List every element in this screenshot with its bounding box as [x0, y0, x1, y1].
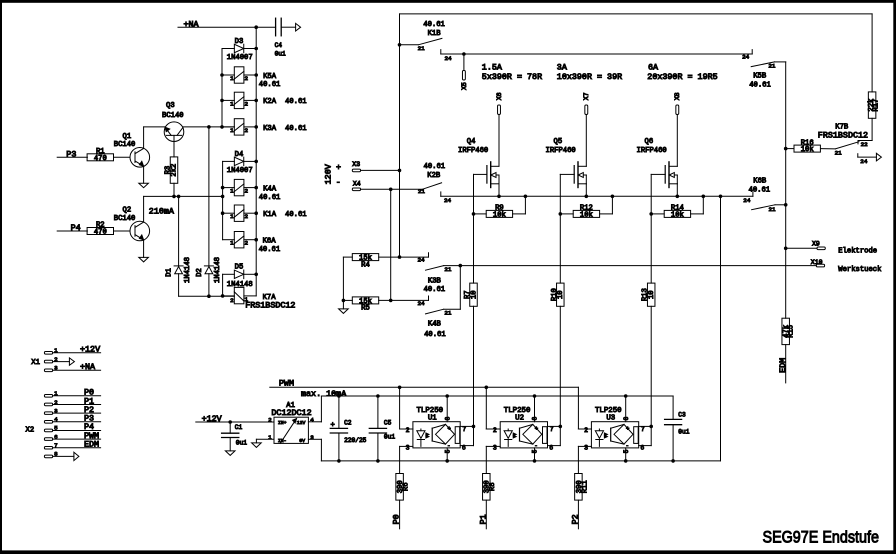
- svg-text:1: 1: [230, 75, 234, 82]
- net EDM label: [778, 358, 788, 373]
- svg-text:U1: U1: [428, 414, 437, 422]
- svg-text:+: +: [626, 425, 629, 432]
- net +NA label: [184, 20, 200, 30]
- diode D2 1N4148: [196, 127, 222, 296]
- svg-text:40.61: 40.61: [285, 125, 307, 133]
- diode D5 1N4148: [223, 263, 258, 288]
- svg-text:EDM: EDM: [84, 440, 99, 450]
- svg-text:1: 1: [230, 240, 234, 247]
- svg-text:Q5: Q5: [554, 138, 563, 146]
- svg-text:R5: R5: [361, 305, 370, 313]
- svg-text:R3: R3: [165, 166, 173, 175]
- svg-text:120V: 120V: [324, 164, 334, 184]
- svg-text:K6B: K6B: [753, 177, 767, 185]
- wire MOSFET source rail: [441, 195, 753, 199]
- wire rail C (D5 anode to K7A): [221, 274, 225, 297]
- svg-text:Q4: Q4: [467, 138, 476, 146]
- svg-text:+: +: [448, 425, 451, 432]
- switch K7B FRS1BSDC12: [786, 124, 877, 166]
- resistor R15 47k: [782, 318, 796, 383]
- svg-text:X7: X7: [583, 92, 590, 100]
- svg-text:3: 3: [406, 444, 410, 451]
- svg-text:1N4148: 1N4148: [184, 257, 192, 283]
- svg-text:8: 8: [444, 416, 451, 420]
- svg-text:40.61: 40.61: [424, 286, 446, 294]
- wire opto ground rail: [321, 459, 720, 463]
- svg-text:C1: C1: [235, 424, 243, 431]
- svg-text:Elektrode: Elektrode: [838, 247, 877, 255]
- X2 pin 8 arrow: [44, 451, 79, 461]
- capacitor C4: [275, 18, 296, 57]
- relay coil K6A: [223, 232, 281, 255]
- svg-text:12V: 12V: [297, 420, 306, 426]
- svg-text:5: 5: [623, 449, 630, 453]
- svg-text:2: 2: [245, 75, 249, 82]
- svg-text:Q1: Q1: [123, 133, 132, 141]
- terminal X6: [496, 92, 503, 114]
- resistor R6 390: [396, 474, 411, 529]
- svg-text:1: 1: [230, 213, 234, 220]
- ground at Q1 emitter: [139, 183, 149, 188]
- svg-text:BC140: BC140: [114, 141, 136, 149]
- svg-text:DC12DC12: DC12DC12: [271, 408, 311, 418]
- svg-text:+: +: [535, 425, 538, 432]
- svg-text:P4: P4: [71, 223, 81, 233]
- transistor Q6 IRFP460: [637, 115, 678, 197]
- svg-text:K3A: K3A: [263, 125, 277, 133]
- capacitor C1 0u1: [222, 422, 248, 451]
- svg-text:R13: R13: [642, 288, 650, 301]
- svg-text:+NA: +NA: [80, 362, 96, 372]
- svg-text:+: +: [331, 422, 335, 430]
- resistor R11 390: [575, 474, 590, 529]
- svg-text:10x390R = 39R: 10x390R = 39R: [557, 72, 622, 82]
- svg-text:Q6: Q6: [645, 138, 654, 146]
- svg-text:X6: X6: [496, 92, 503, 100]
- X1 pin 3 +NA: [44, 362, 100, 372]
- svg-text:5: 5: [532, 449, 539, 453]
- svg-text:21: 21: [418, 45, 426, 52]
- svg-text:+NA: +NA: [184, 20, 200, 30]
- terminal arrow at K7B 24: [876, 153, 881, 161]
- svg-text:7: 7: [550, 426, 554, 433]
- svg-text:K4B: K4B: [428, 321, 442, 329]
- svg-text:5x390R = 78R: 5x390R = 78R: [482, 72, 542, 82]
- svg-text:22: 22: [861, 141, 869, 148]
- transistor Q3 BC140: [162, 102, 184, 157]
- connector X1: [31, 359, 40, 367]
- svg-text:40.61: 40.61: [423, 21, 445, 29]
- svg-text:8: 8: [532, 416, 539, 420]
- transistor Q5 IRFP460: [546, 115, 587, 197]
- svg-text:BC140: BC140: [162, 112, 184, 120]
- svg-text:21: 21: [768, 63, 776, 70]
- relay coil K7A: [223, 274, 296, 310]
- resistor R5 15k: [343, 297, 428, 313]
- wire Q6 gate column: [650, 174, 652, 283]
- wire source return column: [720, 196, 722, 461]
- svg-text:C2: C2: [344, 419, 352, 426]
- svg-text:10k: 10k: [671, 212, 684, 220]
- svg-text:8: 8: [623, 416, 630, 420]
- svg-text:24: 24: [860, 158, 868, 165]
- svg-text:40.61: 40.61: [285, 98, 307, 106]
- svg-text:1.5A: 1.5A: [482, 62, 503, 72]
- label current 6A: [647, 62, 717, 82]
- svg-text:6: 6: [640, 444, 644, 451]
- svg-text:+: +: [336, 162, 341, 172]
- dc-dc converter A1 DC12DC12: [256, 396, 321, 461]
- svg-text:24: 24: [418, 257, 426, 264]
- svg-text:2: 2: [245, 213, 249, 220]
- resistor R9 10k: [472, 196, 526, 219]
- svg-text:R10: R10: [551, 288, 559, 301]
- diode D4 1N4007: [223, 151, 258, 175]
- wire X4 column to R5: [390, 189, 392, 300]
- svg-text:-: -: [626, 442, 629, 449]
- svg-text:7: 7: [462, 426, 466, 433]
- svg-text:1N4007: 1N4007: [227, 54, 253, 62]
- switch K5B 40.61: [742, 50, 786, 90]
- svg-text:5: 5: [444, 449, 451, 453]
- relay coil K4A: [221, 179, 281, 202]
- svg-text:3: 3: [584, 444, 588, 451]
- resistor R1 470: [87, 148, 130, 163]
- svg-text:K2A: K2A: [263, 98, 277, 106]
- switch K6B 40.61: [743, 177, 787, 213]
- svg-text:-: -: [447, 442, 450, 449]
- svg-text:1N4148: 1N4148: [214, 257, 222, 283]
- svg-text:2: 2: [245, 188, 249, 195]
- svg-text:2: 2: [245, 240, 249, 247]
- svg-text:21: 21: [835, 150, 843, 157]
- switch K3B 40.61: [418, 253, 452, 295]
- resistor R14 10k: [649, 196, 703, 219]
- resistor R10 10: [551, 283, 565, 426]
- ground at C1: [225, 451, 235, 456]
- relay coil K3A: [220, 119, 306, 135]
- net P1 label: [478, 514, 488, 524]
- svg-text:FRS1BSDC12: FRS1BSDC12: [245, 300, 295, 310]
- svg-text:24: 24: [742, 54, 750, 61]
- terminal X8: [674, 92, 681, 114]
- wire K4B to werkstueck node: [444, 264, 462, 309]
- svg-text:C3: C3: [678, 411, 686, 418]
- svg-text:IN-: IN-: [278, 438, 287, 444]
- svg-text:R6: R6: [403, 482, 411, 491]
- net +12V wire: [196, 414, 274, 424]
- svg-text:Q3: Q3: [166, 102, 175, 110]
- svg-text:24: 24: [445, 55, 453, 62]
- svg-text:X1: X1: [31, 359, 40, 367]
- terminal X5: [461, 54, 468, 90]
- svg-text:P1: P1: [478, 514, 488, 524]
- wire main +NA rail: [255, 27, 257, 274]
- X2 pin 7 EDM: [44, 440, 100, 450]
- diode D3 1N4007: [222, 38, 258, 62]
- svg-text:X2: X2: [26, 426, 35, 434]
- svg-text:0V: 0V: [299, 438, 305, 444]
- wire bottom row to K7A: [179, 294, 235, 298]
- svg-text:D3: D3: [235, 38, 244, 46]
- terminal X3: [352, 161, 399, 172]
- svg-text:40.61: 40.61: [259, 246, 281, 254]
- svg-text:2: 2: [230, 297, 234, 304]
- resistor R17 22k: [868, 14, 880, 141]
- svg-text:6: 6: [549, 444, 553, 451]
- svg-text:6A: 6A: [648, 62, 659, 72]
- svg-text:0u1: 0u1: [236, 440, 247, 447]
- svg-text:2: 2: [493, 427, 497, 434]
- svg-text:IRFP460: IRFP460: [458, 147, 488, 155]
- svg-text:3A: 3A: [557, 62, 568, 72]
- wire Q3 to K3A row: [183, 125, 235, 129]
- label current 3A: [557, 62, 622, 82]
- resistor R2 470: [87, 222, 130, 237]
- switch K4B 40.61: [418, 296, 452, 339]
- resistor R12 10k: [559, 196, 613, 219]
- svg-text:21: 21: [418, 188, 426, 195]
- label max. 10mA and +12V opto rail: [301, 389, 673, 399]
- wire top rail: [400, 13, 873, 15]
- svg-text:0u1: 0u1: [678, 428, 689, 435]
- svg-text:P0: P0: [392, 514, 402, 524]
- svg-text:24: 24: [743, 197, 751, 204]
- wire Q4 gate column: [473, 174, 475, 283]
- X2 pin 6 PWM: [44, 431, 100, 441]
- svg-text:X4: X4: [353, 181, 361, 188]
- svg-text:24: 24: [444, 197, 452, 204]
- X2 pin 2 P1: [44, 396, 100, 406]
- svg-text:IN+: IN+: [278, 420, 287, 426]
- wire 120V+ rail (K1B/X3/R4): [398, 14, 402, 257]
- terminal arrow at C4 output: [296, 23, 301, 31]
- svg-text:3: 3: [493, 444, 497, 451]
- svg-text:C5: C5: [384, 419, 392, 426]
- svg-text:40.61: 40.61: [749, 187, 771, 195]
- svg-text:R17: R17: [872, 99, 880, 112]
- title SEG97E Endstufe: [763, 527, 880, 546]
- svg-text:2: 2: [245, 100, 249, 107]
- svg-text:1: 1: [230, 188, 234, 195]
- svg-text:D2: D2: [196, 268, 204, 277]
- svg-text:21: 21: [444, 310, 452, 317]
- switch K1B 40.61: [400, 21, 753, 62]
- svg-text:D5: D5: [235, 263, 244, 271]
- diode D1 1N4148: [166, 196, 192, 296]
- relay coil K1A: [221, 205, 307, 221]
- X2 pin 1 P0: [44, 388, 100, 398]
- label current 1.5A: [482, 62, 542, 82]
- ground at R5: [339, 300, 349, 313]
- svg-text:R4: R4: [361, 261, 370, 269]
- net P3 wire and label: [57, 149, 87, 159]
- svg-text:BC140: BC140: [114, 215, 136, 223]
- net P0 label: [392, 514, 402, 524]
- resistor R8 390: [483, 474, 498, 529]
- svg-text:X5: X5: [461, 82, 468, 90]
- svg-text:21: 21: [769, 206, 777, 213]
- ground at Q2 emitter: [139, 257, 149, 262]
- svg-text:X3: X3: [352, 161, 360, 168]
- X2 pin 4 P3: [44, 414, 100, 424]
- capacitor C5 0u1: [369, 396, 395, 461]
- terminal X4: [352, 181, 422, 191]
- optocoupler U2 TLP250: [486, 387, 562, 473]
- svg-text:Q2: Q2: [123, 207, 132, 215]
- wire rail A (D3 anode to K3A): [221, 49, 223, 127]
- relay coil K2A: [220, 92, 306, 108]
- svg-text:6: 6: [462, 444, 466, 451]
- svg-text:K6A: K6A: [263, 238, 277, 246]
- svg-text:X9: X9: [812, 240, 820, 247]
- X2 pin 3 P2: [44, 405, 100, 415]
- wire +NA: [178, 25, 276, 29]
- svg-text:max. 10mA: max. 10mA: [301, 389, 347, 399]
- svg-text:IRFP460: IRFP460: [546, 147, 576, 155]
- svg-text:1N4007: 1N4007: [227, 167, 253, 175]
- svg-text:0u1: 0u1: [275, 51, 286, 58]
- resistor R13 10: [642, 283, 656, 426]
- svg-text:40.61: 40.61: [424, 331, 446, 339]
- switch K2B 40.61: [418, 163, 452, 204]
- svg-text:2: 2: [245, 127, 249, 134]
- svg-text:40.61: 40.61: [259, 81, 281, 89]
- wire rail B (D4 anode to K6A): [222, 161, 224, 239]
- transistor Q4 IRFP460: [458, 115, 499, 197]
- transistor Q1 BC140: [114, 127, 150, 183]
- svg-text:40.61: 40.61: [749, 82, 771, 90]
- transistor Q2 BC140: [114, 196, 150, 257]
- wire Werkstueck row: [444, 265, 817, 267]
- terminal X9 Elektrode: [786, 240, 877, 255]
- svg-text:X10: X10: [811, 259, 823, 266]
- svg-text:P2: P2: [571, 514, 581, 524]
- X2 pin 5 P4: [44, 422, 100, 432]
- connector X2: [26, 426, 35, 434]
- svg-text:R11: R11: [581, 480, 589, 493]
- terminal X10 Werkstueck: [811, 259, 882, 274]
- wire right rail: [784, 62, 788, 318]
- wire R4 to R5: [342, 257, 346, 302]
- svg-text:40.61: 40.61: [259, 194, 281, 202]
- relay coil K5A: [220, 67, 280, 89]
- svg-text:K5A: K5A: [263, 73, 277, 81]
- optocoupler U3 TLP250: [578, 387, 653, 473]
- svg-text:1: 1: [230, 127, 234, 134]
- svg-text:2: 2: [584, 427, 588, 434]
- svg-text:2: 2: [268, 416, 272, 423]
- net P4 wire and label: [57, 223, 87, 233]
- resistor R4 15k: [343, 254, 428, 270]
- svg-text:EDM: EDM: [778, 358, 788, 373]
- svg-text:+12V: +12V: [80, 345, 100, 355]
- svg-text:K1B: K1B: [428, 30, 442, 38]
- X1 pin 2 arrow: [44, 356, 74, 365]
- label 120V supply: [324, 162, 342, 187]
- svg-text:21: 21: [444, 266, 452, 273]
- svg-text:K5B: K5B: [753, 73, 767, 81]
- svg-text:C4: C4: [275, 42, 283, 49]
- svg-text:P3: P3: [66, 149, 76, 159]
- svg-text:D1: D1: [166, 268, 174, 277]
- svg-text:U3: U3: [606, 414, 615, 422]
- wire Q5 gate column: [559, 174, 561, 283]
- svg-text:-: -: [534, 442, 537, 449]
- svg-text:10k: 10k: [580, 212, 593, 220]
- terminal X7: [583, 92, 590, 114]
- svg-text:R15: R15: [788, 325, 796, 338]
- svg-text:IRFP460: IRFP460: [637, 147, 667, 155]
- svg-text:D4: D4: [235, 151, 244, 159]
- X1 pin 1 +12V: [44, 345, 100, 355]
- svg-text:-: -: [336, 177, 341, 187]
- net PWM label and wire: [270, 378, 579, 389]
- svg-text:K4A: K4A: [263, 185, 277, 193]
- svg-text:470: 470: [94, 229, 107, 237]
- resistor R7 10: [464, 283, 478, 426]
- svg-text:FRS1BSDC12: FRS1BSDC12: [818, 131, 868, 141]
- svg-text:K1A: K1A: [263, 211, 277, 219]
- svg-text:7: 7: [641, 426, 645, 433]
- capacitor C2 220/25: [330, 396, 366, 461]
- svg-text:+12V: +12V: [202, 414, 222, 424]
- svg-text:Werkstueck: Werkstueck: [838, 266, 881, 274]
- svg-text:40.61: 40.61: [424, 163, 446, 171]
- svg-text:2: 2: [406, 427, 410, 434]
- svg-text:1: 1: [230, 100, 234, 107]
- ground at A1 IN-: [252, 439, 262, 447]
- svg-text:0u1: 0u1: [384, 434, 395, 441]
- svg-text:10k: 10k: [493, 212, 506, 220]
- capacitor C3 0u1: [665, 396, 690, 461]
- svg-text:210mA: 210mA: [149, 206, 175, 216]
- svg-text:R7: R7: [464, 290, 472, 299]
- svg-text:24: 24: [418, 300, 426, 307]
- svg-text:K2B: K2B: [427, 172, 441, 180]
- svg-text:470: 470: [94, 155, 107, 163]
- svg-text:U2: U2: [515, 414, 524, 422]
- wire Q1 collector to Q3: [144, 126, 166, 128]
- svg-text:X8: X8: [674, 92, 681, 100]
- wire 210mA row: [144, 195, 225, 217]
- svg-text:SEG97E Endstufe: SEG97E Endstufe: [763, 527, 880, 546]
- optocoupler U1 TLP250: [400, 387, 476, 473]
- svg-text:R8: R8: [489, 482, 497, 491]
- svg-text:10k: 10k: [801, 146, 814, 154]
- svg-text:220/25: 220/25: [344, 437, 367, 444]
- svg-text:20x390R = 19R5: 20x390R = 19R5: [647, 72, 717, 82]
- net P2 label: [571, 514, 581, 524]
- resistor R3 2k2: [165, 157, 179, 197]
- svg-text:40.61: 40.61: [285, 211, 307, 219]
- svg-text:K3B: K3B: [428, 277, 442, 285]
